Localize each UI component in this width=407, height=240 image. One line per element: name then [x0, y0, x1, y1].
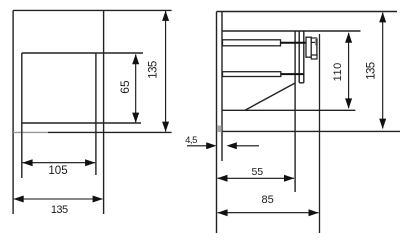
screw 1 — [223, 40, 281, 46]
panel rear line (long extension) — [216, 12, 218, 234]
window left edge + extension — [21, 53, 23, 178]
screw 2 — [223, 72, 281, 77]
svg-text:55: 55 — [251, 166, 263, 178]
dimension 85 — [218, 212, 319, 214]
svg-text:85: 85 — [261, 194, 273, 206]
dimension 135 (right view) — [382, 13, 384, 129]
outer frame top edge + extension — [13, 9, 172, 11]
dimension 135 (horizontal, bottom) — [14, 198, 103, 200]
dimension 4,5 — [187, 145, 259, 147]
gray panel block bottom — [217, 126, 222, 133]
front-most line / extension for 85 — [319, 34, 321, 233]
outer frame bottom edge dark part — [48, 131, 172, 133]
svg-text:65: 65 — [118, 80, 132, 94]
panel front line — [221, 12, 223, 162]
window top edge + extension — [22, 52, 143, 54]
svg-text:110: 110 — [332, 62, 344, 81]
dimension 135 (vertical, left view) — [165, 11, 167, 132]
dimension 105 (horizontal) — [23, 162, 96, 164]
dimension 55 — [218, 177, 295, 179]
window bottom edge + extension — [22, 122, 141, 124]
svg-text:135: 135 — [51, 204, 68, 216]
svg-text:135: 135 — [148, 61, 160, 79]
case front edge — [294, 31, 296, 192]
svg-text:105: 105 — [48, 165, 67, 177]
case bottom line (110 ref) + extension — [222, 109, 355, 111]
svg-text:4,5: 4,5 — [185, 135, 197, 146]
case top edge + extension — [222, 30, 361, 32]
bottom edge + extension — [222, 130, 400, 132]
diagonal brace — [245, 83, 295, 110]
outer frame right edge + extension down — [103, 10, 105, 214]
dimension 110 — [348, 33, 350, 108]
outer frame bottom edge gray part — [13, 131, 48, 133]
dimension 65 (vertical) — [135, 55, 137, 123]
svg-text:135: 135 — [366, 62, 378, 80]
terminal block — [306, 37, 311, 57]
window right edge + extension — [95, 53, 97, 175]
inner front lines (U channel) — [298, 31, 300, 83]
outer frame left edge + extension down — [12, 10, 14, 214]
top edge full — [217, 11, 398, 13]
